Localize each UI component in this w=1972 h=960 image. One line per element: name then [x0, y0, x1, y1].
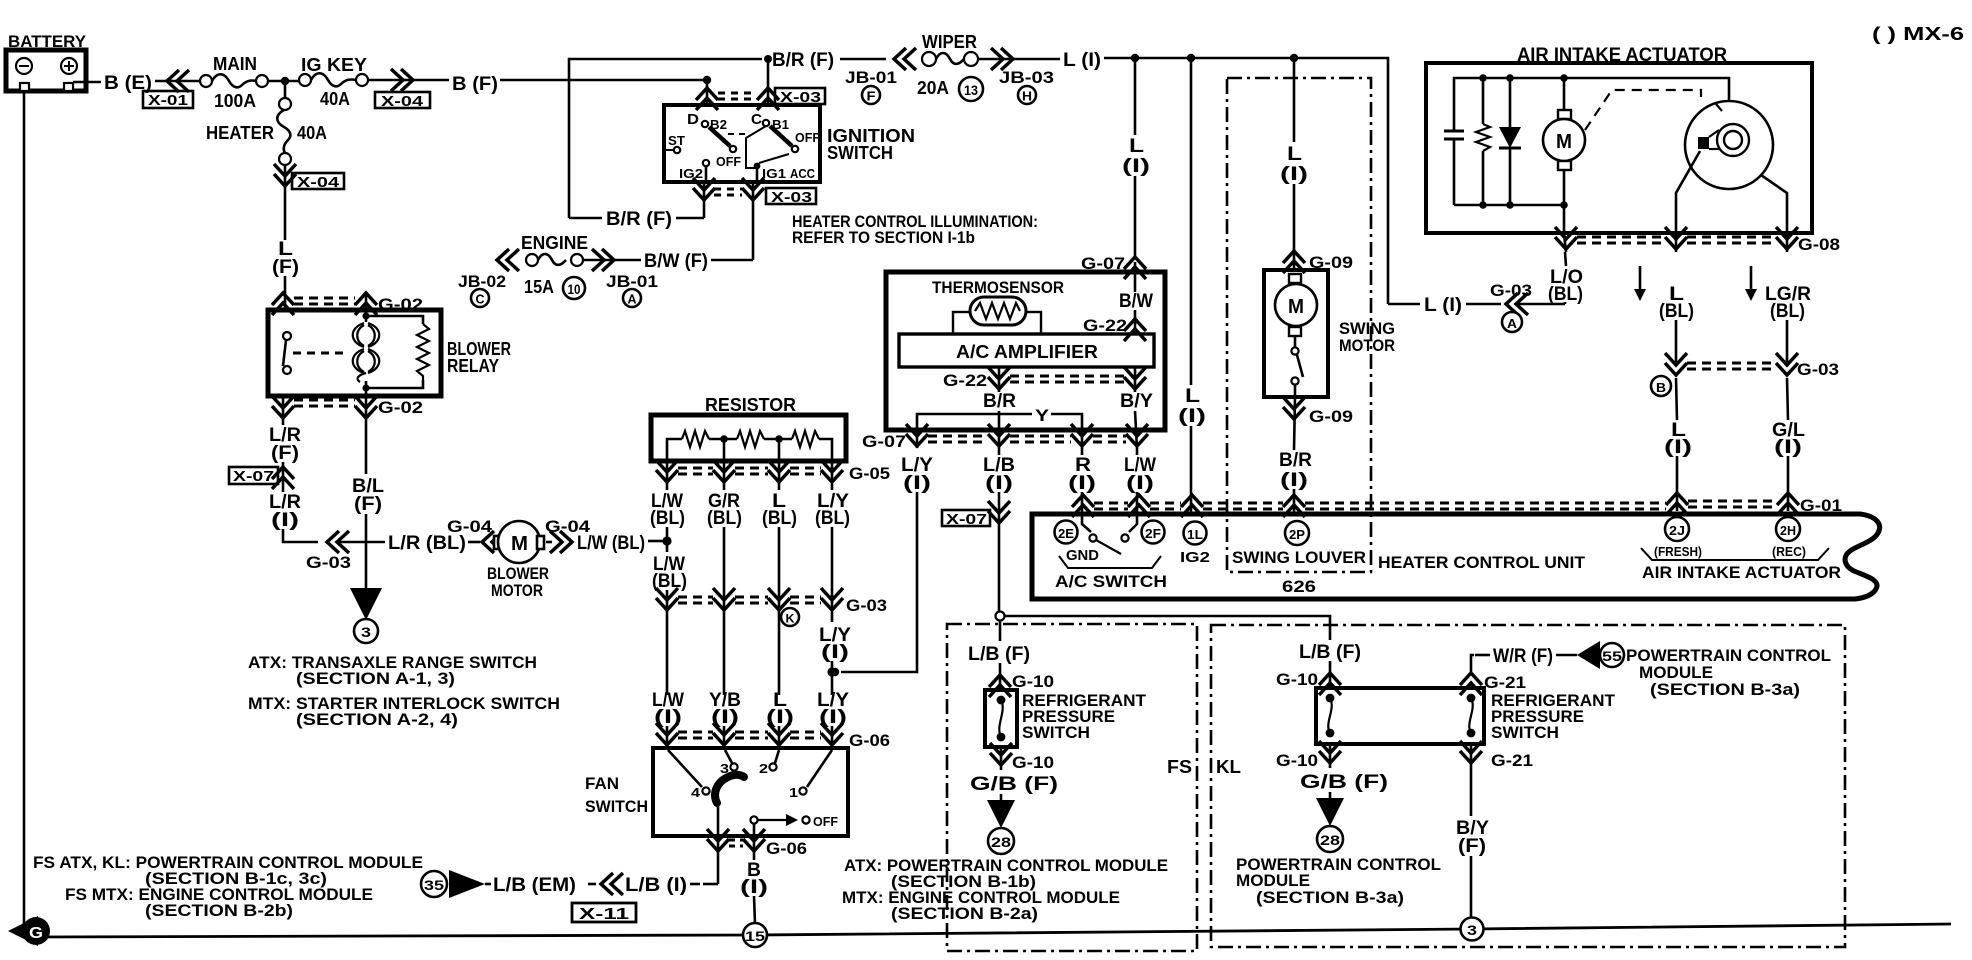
svg-text:B (F): B (F): [452, 74, 498, 95]
connector G-02 top: [272, 293, 294, 315]
wire L(I) to 1L: [1190, 58, 1193, 385]
svg-text:L/B (EM): L/B (EM): [493, 875, 576, 896]
svg-text:2P: 2P: [1289, 527, 1305, 542]
svg-text:A/C AMPLIFIER: A/C AMPLIFIER: [956, 342, 1098, 362]
wire L/Y(I): [901, 455, 933, 494]
svg-text:(I): (I): [271, 510, 299, 531]
svg-text:MOTOR: MOTOR: [1339, 336, 1395, 355]
svg-text:(I): (I): [903, 473, 931, 494]
connector X-04 heater: [284, 165, 287, 240]
blower relay K1: [268, 310, 441, 396]
svg-text:(SECTION B-2a): (SECTION B-2a): [891, 904, 1038, 923]
svg-text:(BL): (BL): [650, 508, 685, 529]
pin 2P: [1285, 521, 1309, 545]
connector G-05: [656, 460, 678, 482]
svg-text:G-03: G-03: [1797, 360, 1839, 379]
connector X-07: [988, 501, 1010, 523]
svg-text:G-22: G-22: [943, 371, 987, 390]
wire L(I) from bus via G-03: [1387, 302, 1390, 304]
battery B1: [6, 32, 87, 91]
svg-text:B/W: B/W: [1119, 291, 1153, 312]
node A: [1502, 312, 1522, 332]
refrigerant pressure switch KL: [1316, 688, 1484, 744]
svg-text:GND: GND: [1066, 547, 1099, 564]
wire L (F) to blower relay: [272, 239, 299, 278]
svg-text:KL: KL: [1216, 757, 1241, 777]
svg-text:RESISTOR: RESISTOR: [705, 395, 796, 415]
svg-text:L/B (I): L/B (I): [625, 875, 687, 896]
wire B/R(F) top run to wiper fuse: [569, 59, 762, 218]
svg-text:1L: 1L: [1187, 527, 1203, 542]
svg-text:X-03: X-03: [771, 189, 812, 206]
svg-text:X-01: X-01: [148, 92, 188, 109]
626 dash-dot box: [1227, 78, 1371, 572]
connector G-06 bottom: [717, 836, 720, 884]
svg-text:B/R: B/R: [1279, 450, 1312, 471]
svg-text:HEATER: HEATER: [206, 123, 274, 143]
svg-text:(I): (I): [821, 642, 849, 663]
svg-text:HEATER CONTROL UNIT: HEATER CONTROL UNIT: [1378, 553, 1586, 572]
wire L(I) to 2J: [1676, 378, 1677, 420]
thermosensor assembly box: [886, 272, 1165, 430]
svg-text:(I): (I): [1126, 473, 1154, 494]
svg-text:G-10: G-10: [1276, 670, 1318, 689]
pin 2E: [1055, 521, 1078, 544]
node 3 transaxle: [354, 619, 378, 643]
svg-text:(SECTION A-1, 3): (SECTION A-1, 3): [296, 669, 455, 688]
svg-text:(I): (I): [1280, 164, 1308, 185]
svg-text:G-03: G-03: [846, 596, 887, 615]
svg-text:SWING LOUVER: SWING LOUVER: [1232, 548, 1366, 567]
svg-text:AIR INTAKE ACTUATOR: AIR INTAKE ACTUATOR: [1642, 563, 1841, 582]
svg-text:20A: 20A: [917, 78, 949, 98]
wire B/R(I): [1279, 450, 1312, 491]
svg-text:3: 3: [361, 624, 371, 640]
connector G-03 right: [1665, 353, 1687, 375]
motor M3: [1543, 78, 1585, 205]
dashed link motor to actuator: [1585, 90, 1701, 130]
wire B/R: [998, 367, 1001, 392]
svg-text:A: A: [1507, 316, 1518, 331]
svg-text:626: 626: [1282, 577, 1316, 596]
svg-text:M: M: [1288, 296, 1304, 318]
connector X-03 top: [706, 80, 709, 107]
refrigerant pressure switch FS: [985, 690, 1017, 747]
pin 2H: [1776, 517, 1800, 541]
svg-text:B2: B2: [710, 117, 727, 132]
svg-text:28: 28: [1320, 832, 1340, 848]
A/C switch brace: [1059, 556, 1161, 568]
svg-text:(SECTION A-2, 4): (SECTION A-2, 4): [296, 710, 458, 729]
svg-text:G-21: G-21: [1491, 751, 1533, 770]
svg-text:(BL): (BL): [815, 508, 850, 529]
svg-text:G-03: G-03: [306, 553, 351, 572]
svg-text:( ) MX-6: ( ) MX-6: [1872, 24, 1964, 44]
wire B/R(F) to IG2: [569, 217, 602, 220]
svg-text:OFF: OFF: [795, 130, 820, 145]
svg-text:L/R (BL): L/R (BL): [388, 533, 466, 554]
connector G-21 top: [1460, 673, 1482, 695]
svg-text:2E: 2E: [1058, 526, 1074, 541]
svg-text:ENGINE: ENGINE: [521, 233, 588, 253]
actuator bottom bus: [1454, 204, 1564, 207]
svg-text:2: 2: [759, 761, 768, 776]
svg-text:(I): (I): [1122, 156, 1150, 177]
svg-text:MAIN: MAIN: [213, 54, 257, 74]
ignition switch SW1: [664, 105, 820, 182]
connector G-08: [1564, 233, 1566, 252]
svg-text:F: F: [867, 89, 876, 104]
svg-text:IG2: IG2: [679, 166, 703, 181]
svg-text:M: M: [511, 533, 528, 555]
A/C amplifier U1: [899, 334, 1154, 367]
svg-text:L/B (F): L/B (F): [1299, 642, 1361, 663]
connector G-21 bottom: [1470, 744, 1473, 768]
svg-text:G-21: G-21: [1484, 673, 1526, 692]
actuator output wires: [1676, 151, 1700, 233]
connector G-01 row: [1072, 495, 1094, 517]
svg-text:55: 55: [1602, 648, 1622, 664]
connector G-09 bottom: [1294, 397, 1295, 450]
wire battery negative to ground: [23, 91, 26, 933]
svg-text:G-07: G-07: [862, 432, 906, 451]
svg-text:B/W (F): B/W (F): [644, 251, 708, 272]
svg-text:OFF: OFF: [716, 154, 741, 169]
svg-text:X-04: X-04: [381, 93, 424, 110]
svg-text:G: G: [29, 925, 43, 942]
node 55 PCM: [1600, 643, 1624, 667]
wire L/R(I): [269, 492, 301, 531]
svg-text:FAN: FAN: [585, 774, 619, 793]
wire L/W(BL) column: [666, 461, 669, 490]
wire L/Y(BL) column: [831, 461, 834, 490]
svg-text:(F): (F): [1458, 836, 1486, 857]
svg-text:40A: 40A: [297, 123, 327, 143]
wire Y: [917, 414, 1032, 448]
svg-text:IG1: IG1: [762, 166, 786, 181]
svg-text:G-22: G-22: [1083, 316, 1127, 335]
svg-text:(BL): (BL): [707, 508, 742, 529]
wire battery positive B(E): [73, 81, 101, 84]
connector X-01: [167, 70, 189, 92]
wire B/L(F) to transaxle switch: [365, 396, 368, 474]
pin 2F: [1142, 521, 1165, 544]
svg-text:100A: 100A: [214, 91, 256, 111]
connector G-03 inline: [327, 531, 349, 553]
svg-text:C: C: [476, 292, 486, 307]
svg-text:ACC: ACC: [790, 166, 816, 181]
svg-text:B/R (F): B/R (F): [606, 209, 672, 230]
svg-text:(SECTION B-2b): (SECTION B-2b): [145, 901, 293, 920]
pin 2J: [1665, 517, 1689, 541]
diode D1: [1499, 78, 1521, 205]
A/C switch contacts: [1089, 534, 1128, 554]
wire W/R(F): [1471, 655, 1474, 672]
wire B/W(F) to IG1: [711, 259, 753, 262]
svg-text:2J: 2J: [1669, 523, 1685, 538]
connector JB-01 F: [894, 48, 916, 70]
svg-text:2H: 2H: [1780, 523, 1796, 538]
actuator top bus: [1454, 78, 1729, 131]
wire R(I): [1068, 455, 1096, 494]
node L/W junction: [662, 536, 671, 545]
connector G-07 top: [1124, 257, 1146, 279]
svg-text:(I): (I): [740, 877, 768, 898]
vacuum actuator: [1685, 101, 1773, 189]
svg-text:L: L: [1185, 386, 1201, 407]
svg-text:(BL): (BL): [1548, 284, 1583, 305]
svg-text:3: 3: [1467, 922, 1477, 938]
wire L(I) to swing motor: [1293, 58, 1296, 142]
node 28 KL: [1317, 826, 1343, 852]
svg-text:(I): (I): [1068, 473, 1096, 494]
swing motor M2: [1264, 270, 1328, 397]
svg-text:SWITCH: SWITCH: [585, 797, 648, 816]
fan switch input labels: [652, 690, 684, 728]
svg-text:MOTOR: MOTOR: [491, 581, 543, 600]
svg-text:(BL): (BL): [762, 508, 797, 529]
connector G-10 KL bottom: [1329, 744, 1332, 768]
svg-text:B1: B1: [772, 117, 789, 132]
wire B/W: [1134, 262, 1137, 292]
ground bus: [30, 924, 1951, 937]
svg-text:D: D: [687, 111, 699, 128]
capacitor C1: [1444, 131, 1464, 205]
continuation arrows: [1634, 266, 1646, 301]
fuse IG KEY 40A: [299, 55, 368, 109]
thermosensor R-T: [953, 297, 1041, 334]
connector X-03 bottom: [703, 182, 706, 218]
wire B(I) to node 15: [740, 860, 768, 898]
FS dash-dot box: [947, 624, 1197, 951]
svg-text:G-05: G-05: [849, 464, 890, 483]
node 28 FS: [988, 828, 1014, 854]
svg-text:A: A: [628, 292, 638, 307]
node K: [781, 608, 799, 626]
fuse ENGINE 15A: [497, 249, 519, 271]
svg-text:(I): (I): [1280, 470, 1308, 491]
svg-text:15: 15: [745, 928, 765, 944]
svg-text:(SECTION B-3a): (SECTION B-3a): [1256, 888, 1404, 907]
wire L/W(I): [1124, 455, 1156, 494]
wire L(I) to amplifier: [1134, 58, 1137, 135]
KL dash-dot box: [1211, 625, 1845, 947]
fuse WIPER 20A: [917, 32, 983, 101]
svg-text:L (I): L (I): [1424, 295, 1462, 316]
svg-text:L/W (BL): L/W (BL): [577, 533, 645, 554]
svg-text:L/B (F): L/B (F): [968, 644, 1030, 665]
svg-text:(I): (I): [1774, 437, 1802, 458]
connector G-06 top: [656, 723, 678, 745]
svg-text:(F): (F): [354, 494, 382, 515]
connector G-10 KL top: [1319, 673, 1341, 695]
svg-text:4: 4: [691, 785, 701, 800]
svg-text:M: M: [1556, 131, 1572, 153]
wire L/R(F): [282, 396, 285, 425]
svg-text:G/B (F): G/B (F): [1300, 772, 1388, 793]
svg-text:X-07: X-07: [946, 511, 987, 528]
svg-text:X-07: X-07: [233, 468, 274, 485]
connector G-10 FS top: [989, 675, 1011, 697]
svg-text:1: 1: [789, 785, 798, 800]
svg-text:IG2: IG2: [1180, 549, 1210, 566]
svg-text:28: 28: [991, 834, 1011, 850]
svg-text:OFF: OFF: [813, 814, 838, 829]
svg-text:X-04: X-04: [297, 174, 340, 191]
svg-text:A/C SWITCH: A/C SWITCH: [1055, 572, 1167, 591]
svg-text:IG KEY: IG KEY: [301, 55, 367, 75]
svg-text:G-03: G-03: [1490, 281, 1532, 300]
svg-text:G/B (F): G/B (F): [970, 774, 1058, 795]
svg-text:W/R (F): W/R (F): [1493, 646, 1553, 667]
svg-text:G-10: G-10: [1012, 753, 1054, 772]
svg-text:40A: 40A: [320, 89, 350, 109]
svg-text:SWITCH: SWITCH: [827, 143, 893, 163]
svg-text:(F): (F): [271, 443, 299, 464]
svg-text:(SECTION B-3a): (SECTION B-3a): [1650, 680, 1800, 699]
svg-text:(I): (I): [1178, 406, 1206, 427]
svg-text:FS: FS: [1167, 757, 1192, 777]
svg-text:15A: 15A: [524, 277, 554, 297]
svg-text:Y: Y: [1035, 406, 1050, 425]
svg-text:G-10: G-10: [1276, 751, 1318, 770]
svg-text:REFER TO SECTION I-1b: REFER TO SECTION I-1b: [792, 228, 975, 247]
connector G-09 top: [1283, 251, 1305, 273]
svg-text:(I): (I): [1664, 437, 1692, 458]
svg-text:(I): (I): [985, 473, 1013, 494]
svg-text:THERMOSENSOR: THERMOSENSOR: [932, 278, 1064, 297]
wire L/O(BL): [1548, 267, 1583, 305]
svg-text:G-04: G-04: [447, 517, 493, 536]
wire L/B(I) from fan switch: [703, 883, 718, 886]
fuse MAIN 100A: [200, 54, 268, 111]
svg-text:JB-03: JB-03: [999, 68, 1054, 87]
svg-text:B/R: B/R: [983, 391, 1016, 412]
wire B/Y: [1134, 367, 1137, 392]
svg-text:(F): (F): [272, 257, 299, 278]
svg-text:L: L: [1129, 136, 1145, 157]
svg-text:K: K: [786, 612, 795, 626]
connector X-07: [272, 467, 294, 489]
pin 1L: [1184, 522, 1207, 545]
svg-text:G-06: G-06: [849, 731, 890, 750]
svg-text:SWITCH: SWITCH: [1022, 723, 1090, 742]
svg-text:(BL): (BL): [1770, 301, 1805, 322]
wire L(BL) column: [778, 461, 781, 490]
connector G-22 bottom: [988, 367, 1010, 389]
svg-text:X-11: X-11: [579, 906, 629, 923]
svg-text:(BL): (BL): [1659, 301, 1694, 322]
svg-text:SWITCH: SWITCH: [1491, 723, 1559, 742]
svg-text:(REC): (REC): [1772, 544, 1806, 559]
svg-text:B: B: [1656, 380, 1666, 395]
svg-text:G-06: G-06: [766, 839, 807, 858]
wire L/Y(I) to Y junction: [819, 625, 851, 663]
wire B/Y(F) to node 3: [1470, 768, 1473, 816]
connector G-10 FS bottom: [1000, 747, 1003, 770]
connector G-03 row: [656, 588, 678, 610]
wire L/B(I): [983, 455, 1015, 494]
svg-text:2F: 2F: [1145, 526, 1161, 541]
resistor R2: [1476, 78, 1490, 205]
wire L(BL): [1659, 284, 1694, 322]
blower motor M1: [494, 521, 544, 563]
svg-text:(FRESH): (FRESH): [1654, 544, 1702, 559]
svg-text:G-02: G-02: [378, 398, 423, 417]
fuse HEATER 40A: [206, 98, 327, 165]
svg-text:JB-01: JB-01: [845, 68, 897, 87]
node fuse junction: [268, 80, 299, 83]
svg-text:G-09: G-09: [1309, 407, 1353, 426]
ground G: [8, 916, 50, 946]
svg-text:B/Y: B/Y: [1120, 391, 1153, 412]
heater control unit box: [1032, 514, 1880, 599]
svg-text:35: 35: [424, 877, 444, 893]
connector JB-03 H: [978, 58, 1060, 61]
svg-text:H: H: [1022, 89, 1032, 104]
connector G-07 row: [906, 424, 928, 446]
node B: [1651, 376, 1671, 396]
wire G/L(I) to 2H: [1787, 378, 1788, 420]
svg-text:L (I): L (I): [1063, 50, 1101, 71]
svg-text:RELAY: RELAY: [447, 356, 499, 376]
svg-text:G-08: G-08: [1798, 235, 1840, 254]
svg-text:L: L: [1287, 144, 1303, 165]
svg-text:B/R (F): B/R (F): [772, 50, 834, 71]
svg-text:10: 10: [568, 281, 581, 297]
svg-text:13: 13: [964, 82, 978, 98]
connector X-04: [391, 69, 413, 91]
wire LG/R(BL): [1765, 284, 1811, 322]
wire G/R(BL) column: [723, 461, 726, 490]
connector G-22 right: [1124, 319, 1146, 341]
node L/B branch: [996, 612, 1005, 621]
svg-text:C: C: [751, 111, 762, 128]
svg-text:WIPER: WIPER: [922, 32, 977, 52]
connector G-02 bottom: [272, 396, 294, 418]
